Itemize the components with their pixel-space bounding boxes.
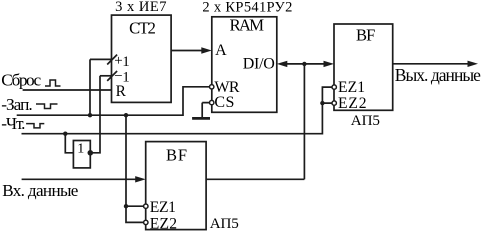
svg-text:EZ1: EZ1 (338, 79, 365, 96)
svg-text:-Чт.: -Чт. (1, 114, 25, 133)
svg-text:-Зап.: -Зап. (1, 95, 33, 114)
svg-text:1: 1 (122, 54, 130, 70)
svg-text:Сброс: Сброс (1, 71, 41, 90)
svg-text:DI/O: DI/O (243, 56, 275, 73)
svg-text:Вых. данные: Вых. данные (395, 65, 481, 85)
svg-text:EZ1: EZ1 (150, 199, 176, 216)
svg-text:2 х КР541РУ2: 2 х КР541РУ2 (202, 0, 292, 15)
svg-text:СТ2: СТ2 (129, 19, 156, 38)
svg-text:R: R (116, 83, 127, 100)
svg-text:BF: BF (356, 26, 375, 45)
svg-text:АП5: АП5 (210, 216, 239, 232)
svg-text:EZ2: EZ2 (150, 215, 177, 232)
svg-text:CS: CS (214, 94, 234, 111)
svg-text:RAM: RAM (230, 16, 265, 35)
svg-text:EZ2: EZ2 (338, 95, 367, 112)
svg-text:АП5: АП5 (351, 113, 380, 129)
svg-text:Вх. данные: Вх. данные (2, 181, 78, 200)
svg-text:1: 1 (77, 142, 84, 157)
svg-text:BF: BF (166, 146, 187, 165)
svg-text:3 х ИЕ7: 3 х ИЕ7 (115, 0, 166, 15)
svg-text:A: A (215, 42, 227, 59)
